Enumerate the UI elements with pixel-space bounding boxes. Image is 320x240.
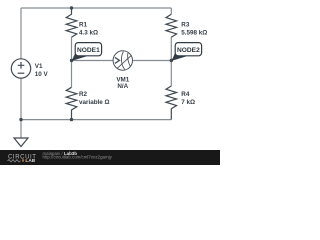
footer bar bbox=[0, 150, 220, 165]
junction dot bottom R2 bbox=[70, 118, 73, 121]
voltage source V1 bbox=[11, 59, 30, 78]
wire R3 top lead bbox=[170, 8, 172, 14]
resistor R3 bbox=[166, 14, 177, 37]
svg-text:http://circuitlab.com/cml7xnz2: http://circuitlab.com/cml7xnz2gamjy bbox=[43, 154, 113, 159]
svg-text:V1: V1 bbox=[35, 63, 43, 70]
svg-text:NODE1: NODE1 bbox=[77, 47, 100, 54]
node NODE2 callout tail bbox=[172, 50, 187, 61]
voltmeter VM1 bbox=[113, 51, 132, 70]
wire bottom rail bbox=[21, 119, 171, 121]
label R2 value bbox=[79, 91, 110, 106]
label R3 value bbox=[181, 22, 207, 37]
junction dot node A bbox=[70, 59, 73, 62]
label R4 value bbox=[181, 91, 195, 106]
wire left rail upper bbox=[20, 8, 22, 59]
resistor R1 bbox=[66, 8, 77, 37]
footer logo LAB bbox=[22, 159, 24, 161]
svg-text:4.3 kΩ: 4.3 kΩ bbox=[79, 29, 98, 36]
svg-text:LAB: LAB bbox=[25, 158, 35, 164]
label R1 value bbox=[79, 22, 98, 37]
svg-text:R1: R1 bbox=[79, 22, 88, 29]
svg-text:7 kΩ: 7 kΩ bbox=[181, 99, 195, 106]
label VM1 value bbox=[116, 77, 129, 91]
svg-text:NODE2: NODE2 bbox=[177, 47, 200, 54]
svg-text:variable Ω: variable Ω bbox=[79, 99, 110, 106]
node NODE1 callout box bbox=[75, 43, 101, 56]
wire voltmeter to node B bbox=[132, 60, 171, 62]
label V1 value bbox=[35, 63, 49, 78]
wire node A to R2 bbox=[71, 61, 73, 88]
svg-text:R2: R2 bbox=[79, 91, 88, 98]
footer logo resistor squiggle bbox=[8, 160, 21, 163]
svg-text:10 V: 10 V bbox=[35, 71, 49, 78]
svg-text:R4: R4 bbox=[181, 91, 190, 98]
svg-text:N/A: N/A bbox=[117, 83, 128, 90]
ground bbox=[14, 138, 28, 147]
junction dot bottom left bbox=[19, 118, 22, 121]
resistor R2 bbox=[66, 87, 77, 119]
wire R1 to node A bbox=[71, 37, 73, 60]
wire left rail lower bbox=[20, 78, 22, 119]
wire R3 to node B bbox=[170, 37, 172, 60]
node NODE2 callout box bbox=[175, 43, 201, 56]
svg-text:R3: R3 bbox=[181, 22, 190, 29]
junction dot node B bbox=[170, 59, 173, 62]
resistor R4 bbox=[166, 86, 177, 120]
node NODE1 callout tail bbox=[72, 50, 87, 61]
junction dot top R1 bbox=[70, 6, 73, 9]
svg-text:5.598 kΩ: 5.598 kΩ bbox=[181, 29, 207, 36]
wire top rail bbox=[21, 7, 171, 9]
wire node B to R4 bbox=[170, 61, 172, 87]
wire node A to voltmeter bbox=[72, 60, 114, 62]
wire ground stub bbox=[20, 120, 22, 138]
